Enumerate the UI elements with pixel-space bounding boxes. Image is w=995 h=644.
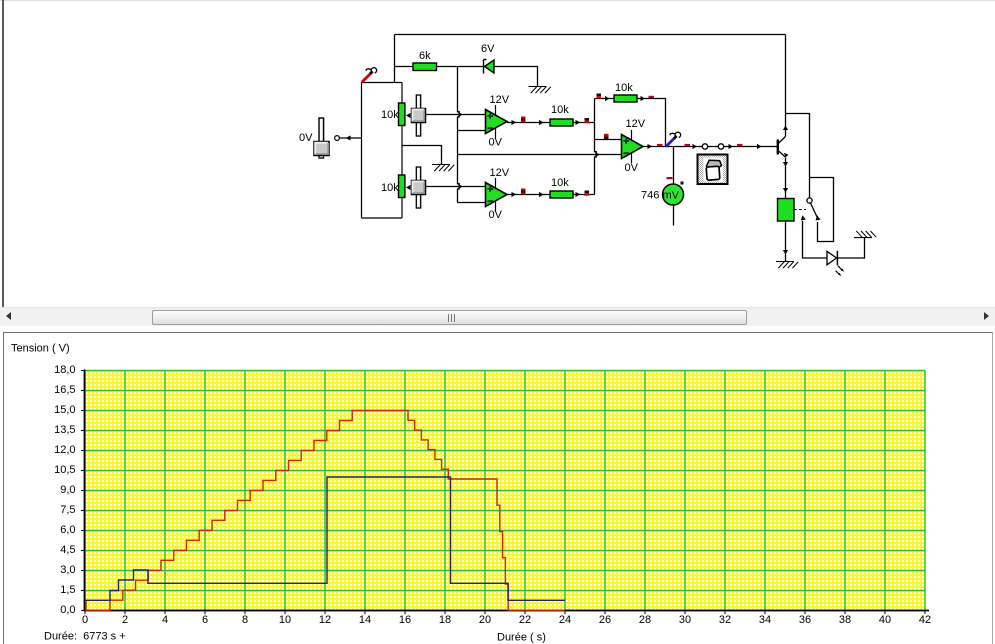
- ground relay coil: [776, 261, 794, 263]
- svg-text:746: 746: [641, 190, 659, 202]
- switch S1 contacts: [702, 144, 707, 149]
- svg-text:mV: mV: [663, 190, 680, 202]
- wire op3 output: [643, 146, 777, 148]
- svg-text:22: 22: [519, 614, 531, 626]
- potentiometer P1 10k: [399, 103, 405, 126]
- svg-text:10: 10: [279, 614, 291, 626]
- node input terminal: [335, 136, 340, 141]
- wire op1 output chain: [507, 122, 550, 124]
- svg-text:42: 42: [919, 614, 931, 626]
- input device terminal wire: [340, 137, 362, 139]
- svg-text:10k: 10k: [551, 104, 569, 116]
- relay contact common: [807, 198, 812, 203]
- svg-text:0V: 0V: [625, 162, 639, 174]
- wire meter tap: [673, 147, 675, 185]
- meter M mV: [663, 184, 684, 205]
- canvas left border: [2, 0, 4, 307]
- svg-text:10,5: 10,5: [54, 464, 75, 476]
- svg-text:9,0: 9,0: [60, 484, 75, 496]
- ground LED inverted: [854, 237, 872, 239]
- diode D 6V zener: [484, 60, 487, 74]
- wire mid ground tap: [402, 146, 442, 165]
- svg-text:6,0: 6,0: [60, 524, 75, 536]
- svg-text:10k: 10k: [615, 82, 633, 94]
- svg-text:12,0: 12,0: [54, 444, 75, 456]
- potentiometer P2 10k: [399, 175, 405, 198]
- wire P1 wiper to op1 plus: [426, 114, 487, 116]
- node rail2 summing: [595, 99, 597, 195]
- svg-text:10k: 10k: [381, 109, 399, 121]
- svg-text:1,5: 1,5: [60, 584, 75, 596]
- svg-text:8: 8: [242, 614, 248, 626]
- pot P1 knob: [416, 95, 420, 136]
- svg-text:16,5: 16,5: [54, 384, 75, 396]
- op-amp U2: [495, 178, 497, 211]
- svg-text:12V: 12V: [626, 118, 646, 130]
- probe pen blue on op3 output: [666, 138, 675, 147]
- ground mid: [432, 164, 450, 166]
- probe pen red on box: [362, 73, 371, 82]
- svg-text:4: 4: [162, 614, 168, 626]
- svg-text:13,5: 13,5: [54, 424, 75, 436]
- wire op2 output chain: [507, 194, 550, 196]
- svg-text:10k: 10k: [551, 177, 569, 189]
- wire diode to ground: [494, 67, 538, 87]
- blue trace (sortie bleue): [85, 477, 565, 600]
- ground top right: [529, 86, 547, 88]
- wire NC throw to LED: [803, 221, 828, 258]
- x axis: [84, 610, 929, 612]
- LED D2: [827, 251, 837, 264]
- svg-text:12V: 12V: [490, 94, 510, 106]
- svg-text:0V: 0V: [489, 209, 503, 221]
- resistor R2 10k: [550, 191, 573, 198]
- wire collector branch to relay common: [786, 114, 810, 199]
- wire coil to ground: [785, 221, 787, 261]
- svg-text:18: 18: [439, 614, 451, 626]
- svg-text:2: 2: [122, 614, 128, 626]
- red trace (sortie rouge): [85, 411, 565, 611]
- svg-text:4,5: 4,5: [60, 544, 75, 556]
- resistor R1 10k: [550, 119, 573, 126]
- svg-text:12: 12: [319, 614, 331, 626]
- chart panel: [3, 332, 993, 644]
- wire op1 minus input: [458, 130, 487, 132]
- transistor Q1: [777, 140, 779, 155]
- svg-text:16: 16: [399, 614, 411, 626]
- wire top rail: [395, 34, 786, 36]
- svg-text:Durée ( s): Durée ( s): [497, 632, 546, 644]
- box block component: [362, 83, 403, 219]
- wire op2 minus input: [458, 202, 486, 204]
- pot P2 knob: [416, 167, 420, 208]
- svg-text:18,0: 18,0: [54, 364, 75, 376]
- wire long line to op3 minus: [458, 154, 622, 156]
- wire op3 plus input: [595, 139, 622, 141]
- svg-text:3,0: 3,0: [60, 564, 75, 576]
- wire rail drop to box: [394, 35, 396, 83]
- relay lever: [811, 203, 818, 218]
- svg-text:12V: 12V: [490, 167, 510, 179]
- svg-text:0V: 0V: [489, 137, 503, 149]
- svg-text:32: 32: [719, 614, 731, 626]
- svg-text:6: 6: [202, 614, 208, 626]
- svg-text:6k: 6k: [419, 50, 431, 62]
- svg-text:34: 34: [759, 614, 771, 626]
- svg-text:0: 0: [82, 614, 88, 626]
- resistor R 6k: [413, 63, 437, 71]
- svg-text:7,5: 7,5: [60, 504, 75, 516]
- relay coil RL1: [778, 199, 795, 222]
- svg-text:24: 24: [559, 614, 571, 626]
- pushbutton image box: [698, 155, 728, 185]
- wire LED to ground: [837, 238, 864, 258]
- resistor R3 10k feedback: [614, 95, 637, 102]
- svg-text:36: 36: [799, 614, 811, 626]
- wire relay throw loop: [810, 178, 834, 242]
- node rail1 vertical reference: [458, 67, 460, 203]
- svg-text:40: 40: [879, 614, 891, 626]
- y axis: [84, 370, 86, 612]
- wire collector up: [785, 35, 787, 137]
- input device plunger: [319, 118, 324, 142]
- relay dashed link: [794, 209, 806, 211]
- wire 6k to diode: [437, 66, 484, 68]
- major gridlines: [85, 371, 925, 611]
- svg-text:0,0: 0,0: [60, 604, 75, 616]
- chart plot area: [85, 371, 925, 611]
- svg-text:15,0: 15,0: [54, 404, 75, 416]
- svg-text:26: 26: [599, 614, 611, 626]
- svg-text:38: 38: [839, 614, 851, 626]
- horizontal scrollbar: [0, 307, 995, 326]
- svg-text:6V: 6V: [481, 43, 495, 55]
- wire 6k feed: [395, 66, 414, 68]
- svg-text:28: 28: [639, 614, 651, 626]
- wire feedback top 10k: [595, 98, 615, 100]
- svg-text:10k: 10k: [381, 182, 399, 194]
- relay throw contacts: [801, 215, 806, 220]
- svg-text:Durée: 6773 s +: Durée: 6773 s +: [44, 631, 126, 643]
- svg-text:30: 30: [679, 614, 691, 626]
- wire P2 wiper to op2 plus: [426, 186, 486, 188]
- wire emitter down to coil: [785, 158, 787, 199]
- svg-text:20: 20: [479, 614, 491, 626]
- svg-text:14: 14: [359, 614, 371, 626]
- svg-text:0V: 0V: [299, 132, 313, 144]
- wire meter open end: [673, 205, 675, 226]
- op-amp U1: [495, 105, 497, 138]
- svg-text:Tension ( V): Tension ( V): [11, 343, 70, 355]
- op-amp U3: [631, 130, 633, 163]
